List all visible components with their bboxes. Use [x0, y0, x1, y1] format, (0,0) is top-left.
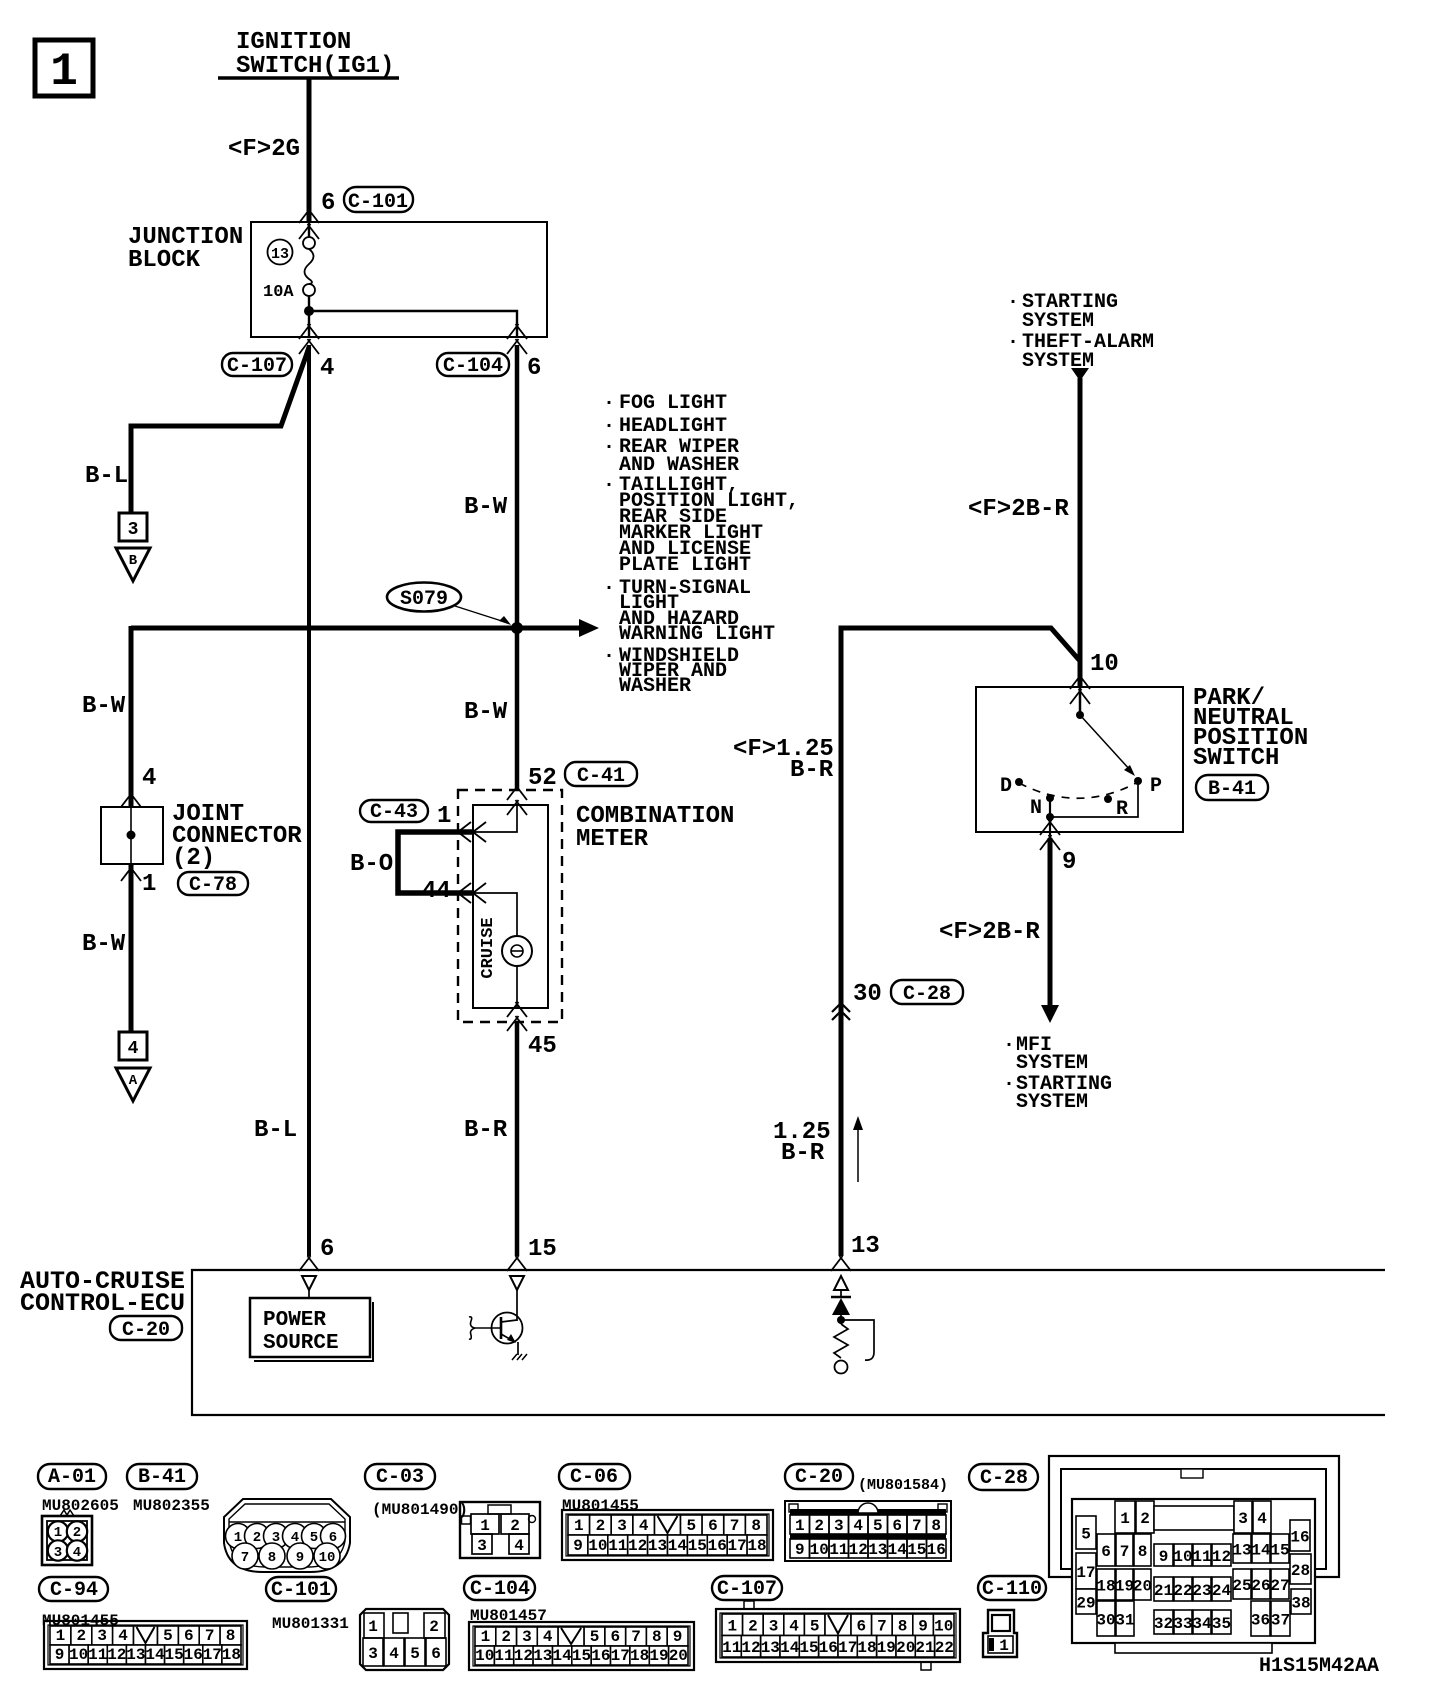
wire label B-L [85, 463, 128, 490]
svg-text:·: · [603, 392, 615, 415]
junction block outline [251, 222, 547, 337]
svg-text:(2): (2) [172, 845, 215, 872]
ECU internal pin triangle 13 [834, 1276, 848, 1290]
svg-text:8: 8 [898, 1618, 908, 1636]
connector label C-107 (pinout section) [712, 1576, 782, 1601]
svg-text:27: 27 [1270, 1577, 1289, 1595]
connector crossing meter pin 52 [507, 785, 527, 815]
svg-text:SYSTEM: SYSTEM [1016, 1091, 1088, 1114]
svg-text:6: 6 [431, 1645, 441, 1663]
svg-text:<F>2G: <F>2G [228, 136, 300, 163]
svg-text:C-78: C-78 [189, 874, 237, 897]
svg-text:1: 1 [1120, 1510, 1130, 1528]
connector label A-01 [38, 1464, 106, 1489]
wire label B-R [464, 1117, 508, 1144]
svg-text:6: 6 [320, 1236, 334, 1263]
connector label C-20 [785, 1464, 853, 1489]
wire label (F)2B-R upper [968, 496, 1069, 523]
connector C-03 pinout [460, 1502, 540, 1558]
diode (ECU internal) [831, 1290, 851, 1324]
svg-text:METER: METER [576, 826, 649, 853]
svg-text:1: 1 [50, 46, 78, 98]
svg-text:13: 13 [126, 1646, 145, 1664]
svg-text:S079: S079 [400, 588, 448, 611]
svg-text:45: 45 [528, 1033, 557, 1060]
cruise label (rotated) [479, 917, 498, 978]
svg-text:11: 11 [1192, 1548, 1211, 1566]
svg-text:4: 4 [320, 355, 334, 382]
cruise indicator lamp [502, 936, 532, 966]
svg-text:30: 30 [853, 981, 882, 1008]
pin 6 of C-104 [527, 355, 541, 382]
PNP contact arc (dashed) [1019, 782, 1138, 798]
svg-text:C-104: C-104 [470, 1578, 530, 1601]
svg-text:·: · [603, 415, 615, 438]
pin 10 label [1090, 651, 1119, 678]
svg-text:2: 2 [510, 1517, 520, 1535]
splice dot S079 [511, 622, 523, 634]
wire B-W to offpage connector A [129, 864, 134, 1032]
pin 44 label [422, 878, 451, 905]
svg-text:FOG LIGHT: FOG LIGHT [619, 392, 727, 415]
svg-text:20: 20 [669, 1647, 688, 1665]
svg-text:B-W: B-W [82, 693, 126, 720]
svg-text:31: 31 [1115, 1612, 1134, 1630]
svg-text:12: 12 [514, 1647, 533, 1665]
connector crossing meter pin 45 [507, 1002, 527, 1031]
svg-text:1: 1 [437, 803, 451, 830]
svg-text:32: 32 [1154, 1615, 1173, 1633]
svg-text:18: 18 [857, 1639, 876, 1657]
svg-text:11: 11 [494, 1647, 513, 1665]
svg-text:10: 10 [810, 1541, 829, 1559]
svg-text:SYSTEM: SYSTEM [1016, 1052, 1088, 1075]
direction arrow on 1.25 B-R wire [853, 1116, 863, 1182]
connector crossing joint connector bottom [121, 866, 141, 881]
combination meter label [576, 803, 734, 853]
svg-text:3: 3 [1238, 1510, 1248, 1528]
svg-text:10: 10 [934, 1618, 953, 1636]
connector label C-107 [222, 353, 292, 378]
svg-text:13: 13 [271, 246, 289, 263]
svg-text:7: 7 [241, 1550, 249, 1566]
connector crossing PNP pin 10 [1070, 674, 1090, 704]
connector label C-78 [178, 872, 248, 897]
svg-text:15: 15 [164, 1646, 183, 1664]
svg-text:SWITCH(IG1): SWITCH(IG1) [236, 53, 394, 80]
svg-text:C-104: C-104 [443, 355, 503, 378]
connector label C-104 [437, 353, 509, 378]
connector C-20 part number (MU801584) [858, 1477, 948, 1494]
svg-text:4: 4 [128, 1039, 139, 1059]
svg-text:1: 1 [54, 1525, 62, 1541]
svg-text:IGNITION: IGNITION [236, 29, 351, 56]
sheet number box 1 [35, 40, 93, 98]
svg-text:4: 4 [73, 1545, 81, 1561]
svg-text:<F>2B-R: <F>2B-R [968, 496, 1069, 523]
power source box [250, 1290, 373, 1361]
svg-text:5: 5 [163, 1627, 173, 1645]
pin 9 label [1062, 849, 1076, 876]
svg-text:3: 3 [368, 1645, 378, 1663]
svg-text:2: 2 [76, 1627, 86, 1645]
junction block label [128, 224, 243, 274]
offpage connector A [116, 1068, 150, 1101]
svg-text:21: 21 [1154, 1582, 1173, 1600]
svg-text:4: 4 [142, 765, 156, 792]
PNP contact P [1134, 775, 1162, 798]
fuse rating 10A [263, 283, 294, 302]
svg-text:19: 19 [877, 1639, 896, 1657]
svg-text:9: 9 [673, 1628, 683, 1646]
svg-text:8: 8 [268, 1550, 276, 1566]
connector label C-94 [39, 1577, 108, 1602]
svg-text:28: 28 [1291, 1562, 1310, 1580]
svg-text:11: 11 [608, 1537, 627, 1555]
svg-text:C-43: C-43 [370, 801, 418, 824]
svg-text:17: 17 [727, 1537, 746, 1555]
svg-text:19: 19 [1115, 1578, 1134, 1596]
connector crossing meter pin 44 [456, 883, 486, 903]
svg-text:MU802355: MU802355 [133, 1497, 210, 1515]
auto-cruise control ECU outline [192, 1270, 1385, 1415]
svg-text:B-R: B-R [781, 1140, 825, 1167]
arrow to MFI system [1041, 1005, 1059, 1023]
connector label C-41 [565, 762, 637, 788]
svg-text:B-R: B-R [790, 757, 834, 784]
park/neutral position switch outline [976, 687, 1183, 832]
svg-text:8: 8 [1138, 1543, 1148, 1561]
wire size label 1.25 B-R [773, 1119, 831, 1167]
connector label C-28 (pinout section) [969, 1464, 1038, 1490]
wire inside meter pin 44 to cruise lamp [473, 893, 517, 936]
svg-text:22: 22 [1173, 1582, 1192, 1600]
svg-text:21: 21 [915, 1639, 934, 1657]
svg-text:33: 33 [1173, 1615, 1192, 1633]
svg-text:23: 23 [1192, 1582, 1211, 1600]
svg-text:CONTROL-ECU: CONTROL-ECU [20, 1289, 185, 1318]
svg-text:2: 2 [253, 1530, 261, 1546]
svg-text:12: 12 [628, 1537, 647, 1555]
junction node in junction block [304, 296, 314, 337]
svg-text:14: 14 [1251, 1542, 1271, 1560]
svg-text:9: 9 [573, 1537, 583, 1555]
svg-text:1: 1 [727, 1618, 737, 1636]
connector crossing PNP pin 9 [1040, 820, 1060, 850]
pin 45 label [528, 1033, 557, 1060]
PNP contact N [1030, 794, 1054, 820]
svg-text:C-41: C-41 [577, 765, 625, 788]
wire label (F)2B-R lower [939, 919, 1040, 946]
svg-text:14: 14 [552, 1647, 572, 1665]
svg-text:8: 8 [652, 1628, 662, 1646]
svg-text:7: 7 [1120, 1543, 1130, 1561]
svg-text:12: 12 [849, 1541, 868, 1559]
svg-text:6: 6 [892, 1517, 902, 1535]
svg-text:15: 15 [907, 1541, 926, 1559]
svg-text:8: 8 [226, 1627, 236, 1645]
svg-text:13: 13 [1232, 1542, 1251, 1560]
svg-text:7: 7 [877, 1618, 887, 1636]
wire label B-W (right upper) [464, 494, 508, 521]
svg-text:2: 2 [596, 1517, 606, 1535]
svg-text:10: 10 [1173, 1548, 1192, 1566]
pin 13 label [851, 1233, 880, 1260]
wire 1.25 B-R branch to ECU pin 13 [841, 628, 1080, 1256]
pin 15 label at ECU [528, 1236, 557, 1263]
pin 6 label at ECU [320, 1236, 334, 1263]
wire from ignition switch IG1 [307, 78, 312, 222]
svg-text:4: 4 [389, 1645, 399, 1663]
svg-text:24: 24 [1212, 1582, 1232, 1600]
svg-text:9: 9 [55, 1646, 65, 1664]
connector crossing C-104 exit [507, 324, 527, 354]
svg-text:6: 6 [184, 1627, 194, 1645]
svg-text:BLOCK: BLOCK [128, 247, 201, 274]
pin 1 of joint connector [142, 871, 156, 898]
svg-text:12: 12 [1212, 1548, 1231, 1566]
svg-text:8: 8 [751, 1517, 761, 1535]
resistor (ECU internal) [834, 1324, 848, 1374]
svg-text:13: 13 [868, 1541, 887, 1559]
svg-text:37: 37 [1271, 1612, 1290, 1630]
svg-text:H1S15M42AA: H1S15M42AA [1259, 1655, 1379, 1678]
pin 1 of C-43 [437, 803, 451, 830]
splice S079 horizontal wire with arrow [131, 619, 599, 807]
connector label C-03 [365, 1464, 435, 1489]
svg-text:34: 34 [1192, 1615, 1212, 1633]
svg-text:6: 6 [610, 1628, 620, 1646]
svg-text:A: A [129, 1073, 138, 1089]
svg-text:4: 4 [1257, 1510, 1267, 1528]
svg-text:C-107: C-107 [717, 1578, 777, 1601]
svg-text:B-L: B-L [254, 1117, 297, 1144]
svg-text:2: 2 [73, 1525, 81, 1541]
ECU internal pin triangle 6 [302, 1276, 316, 1290]
svg-text:·: · [1003, 1073, 1015, 1096]
connector label C-101 [344, 187, 413, 214]
svg-text:·: · [603, 645, 615, 668]
svg-text:14: 14 [888, 1541, 908, 1559]
svg-text:20: 20 [896, 1639, 915, 1657]
wire (F)2B-R from PNP pin 9 to MFI system [1048, 838, 1053, 1008]
svg-text:18: 18 [1096, 1578, 1115, 1596]
svg-text:6: 6 [708, 1517, 718, 1535]
svg-text:13: 13 [851, 1233, 880, 1260]
wire label B-W (left) [82, 693, 126, 720]
svg-text:6: 6 [321, 190, 335, 217]
wire trunk from C-107 down to ECU pin 6 [307, 345, 311, 1256]
connector C-94 pinout [44, 1621, 247, 1669]
connector crossing ECU pin 6 [299, 1256, 319, 1271]
svg-text:·: · [1007, 291, 1019, 314]
svg-text:2: 2 [814, 1517, 824, 1535]
pin 52 of C-41 [528, 765, 557, 792]
svg-text:·: · [603, 436, 615, 459]
wire B-W from C-104 down to combination meter pin 52 [515, 345, 520, 790]
connector C-104 pinout [469, 1622, 694, 1670]
svg-text:29: 29 [1076, 1595, 1095, 1613]
svg-text:B: B [129, 553, 138, 569]
svg-text:18: 18 [630, 1647, 649, 1665]
svg-text:·: · [1007, 331, 1019, 354]
connector crossing ECU pin 15 [507, 1256, 527, 1271]
inline terminal 3 [119, 513, 147, 541]
svg-text:30: 30 [1096, 1612, 1115, 1630]
svg-text:C-20: C-20 [122, 1319, 170, 1342]
svg-text:16: 16 [184, 1646, 203, 1664]
svg-text:1: 1 [481, 1628, 491, 1646]
svg-text:18: 18 [222, 1646, 241, 1664]
svg-text:16: 16 [708, 1537, 727, 1555]
connector crossing C-107 exit [299, 324, 319, 354]
svg-text:9: 9 [918, 1618, 928, 1636]
svg-text:7: 7 [631, 1628, 641, 1646]
svg-text:1: 1 [999, 1637, 1009, 1655]
svg-text:C-101: C-101 [348, 191, 408, 214]
branch wire with hook (ECU internal) [841, 1320, 874, 1360]
svg-text:36: 36 [1251, 1612, 1270, 1630]
connector label C-20 (ECU) [110, 1316, 182, 1342]
svg-text:18: 18 [747, 1537, 766, 1555]
pin 4 of joint connector [142, 765, 156, 792]
PNP wire from P to N exit [1046, 781, 1138, 838]
connector C-94 part number MU801455 [42, 1612, 119, 1630]
svg-text:5: 5 [310, 1530, 318, 1546]
connector crossing ECU pin 13 [831, 1256, 851, 1271]
inline connector chevrons at C-28 [832, 1003, 850, 1020]
svg-text:11: 11 [88, 1646, 107, 1664]
svg-text:MU801331: MU801331 [272, 1615, 349, 1633]
svg-text:(MU801584): (MU801584) [858, 1477, 948, 1494]
connector label B-41 [127, 1464, 197, 1489]
svg-text:16: 16 [927, 1541, 946, 1559]
svg-text:C-28: C-28 [980, 1467, 1028, 1490]
drawing code H1S15M42AA [1259, 1655, 1379, 1678]
svg-text:4: 4 [118, 1627, 128, 1645]
svg-text:CRUISE: CRUISE [479, 917, 498, 978]
svg-text:10A: 10A [263, 283, 294, 302]
svg-text:6: 6 [856, 1618, 866, 1636]
svg-text:3: 3 [769, 1618, 779, 1636]
svg-text:A-01: A-01 [48, 1466, 96, 1489]
svg-text:SOURCE: SOURCE [263, 1332, 339, 1355]
svg-text:B-41: B-41 [138, 1466, 186, 1489]
svg-text:20: 20 [1133, 1578, 1152, 1596]
connector label C-104 (pinout section) [464, 1576, 535, 1601]
wire label B-W (bottom left) [82, 931, 126, 958]
connector A-01 part number MU802605 [42, 1497, 119, 1515]
svg-text:3: 3 [617, 1517, 627, 1535]
svg-text:C-28: C-28 [903, 983, 951, 1006]
svg-text:15: 15 [688, 1537, 707, 1555]
svg-text:10: 10 [588, 1537, 607, 1555]
svg-text:8: 8 [931, 1517, 941, 1535]
connector label B-41 [1196, 775, 1268, 801]
wire label B-L (trunk) [254, 1117, 297, 1144]
svg-text:10: 10 [475, 1647, 494, 1665]
svg-text:3: 3 [128, 520, 139, 540]
MFI / starting system list [1003, 1034, 1112, 1114]
svg-text:WASHER: WASHER [619, 675, 691, 698]
svg-text:4: 4 [514, 1537, 524, 1555]
svg-text:1: 1 [795, 1517, 805, 1535]
svg-text:HEADLIGHT: HEADLIGHT [619, 415, 727, 438]
svg-text:1: 1 [574, 1517, 584, 1535]
connector C-104 part number MU801457 [470, 1607, 547, 1625]
svg-text:4: 4 [789, 1618, 799, 1636]
PNP switch wiper arm [1080, 715, 1135, 776]
svg-text:2: 2 [1140, 1510, 1150, 1528]
systems list fed by S079 [603, 392, 799, 698]
svg-text:25: 25 [1232, 1577, 1251, 1595]
wire label B-O [350, 851, 393, 878]
svg-text:13: 13 [533, 1647, 552, 1665]
junction node after diode [837, 1316, 845, 1324]
svg-text:1: 1 [368, 1618, 378, 1636]
joint connector label [172, 801, 302, 872]
svg-text:15: 15 [528, 1236, 557, 1263]
svg-text:7: 7 [912, 1517, 922, 1535]
svg-text:6: 6 [527, 355, 541, 382]
svg-text:1: 1 [56, 1627, 66, 1645]
connector crossing meter pin 1 [456, 822, 486, 842]
svg-text:B-W: B-W [464, 494, 508, 521]
svg-text:12: 12 [741, 1639, 760, 1657]
connector C-101 part number MU801331 [272, 1615, 349, 1633]
svg-text:16: 16 [1290, 1529, 1309, 1547]
svg-text:C-110: C-110 [982, 1578, 1042, 1601]
wire B-R from meter pin 45 to ECU pin 15 [515, 1022, 520, 1256]
svg-text:26: 26 [1251, 1577, 1270, 1595]
combination meter inner box [473, 805, 548, 1008]
svg-text:14: 14 [780, 1639, 800, 1657]
svg-text:10: 10 [69, 1646, 88, 1664]
park/neutral position switch label [1193, 685, 1308, 772]
auto-cruise control ECU label [20, 1267, 185, 1318]
svg-text:MU802605: MU802605 [42, 1497, 119, 1515]
svg-text:15: 15 [572, 1647, 591, 1665]
svg-text:16: 16 [819, 1639, 838, 1657]
joint connector (2) box [101, 807, 163, 864]
svg-text:POWER: POWER [263, 1309, 326, 1332]
svg-text:6: 6 [1101, 1543, 1111, 1561]
svg-text:C-20: C-20 [795, 1466, 843, 1489]
svg-text:3: 3 [522, 1628, 532, 1646]
connector label C-06 [559, 1464, 630, 1489]
connector crossing C-101 [299, 208, 319, 239]
svg-text:11: 11 [829, 1541, 848, 1559]
inline terminal 4 [119, 1032, 147, 1060]
svg-text:·: · [603, 474, 615, 497]
svg-text:2: 2 [429, 1618, 439, 1636]
svg-text:14: 14 [668, 1537, 688, 1555]
PNP contact D [1000, 775, 1023, 798]
svg-text:17: 17 [611, 1647, 630, 1665]
svg-text:P: P [1150, 775, 1162, 798]
svg-text:22: 22 [935, 1639, 954, 1657]
svg-text:B-R: B-R [464, 1117, 508, 1144]
svg-text:5: 5 [1081, 1526, 1091, 1544]
transistor base lead with hook [469, 1317, 501, 1339]
svg-text:7: 7 [730, 1517, 740, 1535]
svg-text:15: 15 [799, 1639, 818, 1657]
wire inside meter lamp to pin 45 [516, 966, 518, 1008]
svg-text:3: 3 [834, 1517, 844, 1535]
svg-text:5: 5 [590, 1628, 600, 1646]
svg-text:D: D [1000, 775, 1012, 798]
svg-text:16: 16 [591, 1647, 610, 1665]
